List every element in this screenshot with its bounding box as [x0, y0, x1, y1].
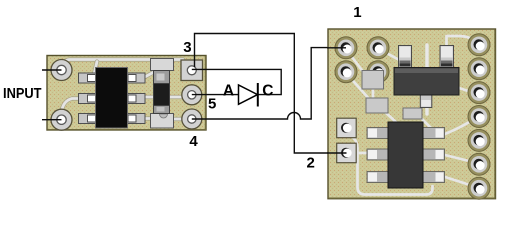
- right column pad 6: [468, 153, 490, 175]
- svg-text:4: 4: [189, 133, 198, 150]
- U1 pin 2 left pad: [79, 94, 97, 104]
- IC U1 pin pads right: [128, 73, 146, 124]
- svg-text:A: A: [223, 83, 234, 100]
- IC U2 body: [388, 122, 423, 188]
- U2 pin row 3 left pad: [367, 172, 389, 183]
- trace pad col2 to Q1 left pin: [379, 49, 403, 62]
- U2 pin row 2 left pad: [367, 149, 389, 160]
- right board right column pads (7): [468, 34, 490, 199]
- IC U2 pin pads left: [367, 128, 389, 183]
- right board round pad (346,71.7): [335, 61, 357, 83]
- trace U2 row3R to right pad: [445, 177, 470, 185]
- wire pad5 to diode anode: [192, 94, 239, 96]
- U1 pin 1 right pad: [128, 73, 146, 83]
- svg-text:C: C: [262, 83, 273, 100]
- capacitor C1 body: [154, 71, 170, 114]
- trace square pad B to U2 row2L: [356, 152, 371, 155]
- trace top right pad to Q1 right pin: [447, 36, 478, 50]
- smd pad S2: [366, 98, 388, 113]
- capacitor C1 bottom solder tab: [151, 114, 174, 129]
- trace rail to pin1L: [94, 62, 97, 75]
- trace pad2 to pin2L: [62, 99, 81, 114]
- Q1 pin pad right: [440, 46, 454, 68]
- capacitor C1 top solder tab: [151, 59, 174, 71]
- U2 pin row 1 left pad: [367, 128, 389, 139]
- smd pad S1: [362, 71, 384, 90]
- pad 5: [182, 85, 202, 105]
- trace top rail pad1 to C1 to pad3: [62, 60, 184, 70]
- trace pin2R to pad5: [140, 95, 188, 99]
- pad 4: [182, 109, 202, 129]
- U2 pin row 3 right pad: [423, 172, 445, 183]
- wire pad3 to diode cathode: [192, 69, 281, 94]
- U1 pin 3 left pad: [79, 114, 97, 124]
- right board square pad B (pin 2): [337, 143, 357, 163]
- IC U1 pin pads left: [79, 73, 97, 124]
- U1 pin 2 right pad: [128, 94, 146, 104]
- IC U1 body: [96, 68, 128, 129]
- right board square pad A: [337, 118, 357, 138]
- U1 pin 3 right pad: [128, 114, 146, 124]
- right column pad 1: [468, 34, 490, 56]
- transistor Q1 body: [394, 68, 459, 96]
- trace pin3R to C1 bottom: [141, 116, 154, 120]
- pad 3 (square): [181, 60, 203, 81]
- trace S2 to U2 top: [384, 111, 397, 123]
- U2 pin row 1 right pad: [423, 128, 445, 139]
- U2 pin row 2 right pad: [423, 149, 445, 160]
- Q1 pin pad left: [399, 46, 412, 68]
- trace C1 bottom to pad4: [170, 117, 188, 121]
- transistor Q1 pin pads: [399, 46, 454, 108]
- smd pad S3: [403, 108, 422, 119]
- svg-text:2: 2: [307, 154, 315, 171]
- U1 pin 1 left pad: [79, 73, 97, 83]
- right board round pad (378,47.8): [367, 37, 389, 59]
- trace pad1 to smd pad S1: [346, 49, 367, 77]
- trace U2 row1R to right pad: [445, 119, 474, 134]
- right column pad 7: [468, 177, 490, 199]
- trace Q1 right pin to right pad row3: [445, 66, 473, 93]
- wire pad3 up over and down to pad B of right board: [195, 34, 347, 154]
- pad INPUT+ (big pad 1): [51, 60, 72, 81]
- right board round pad pin 1: [335, 37, 357, 59]
- right column pad 5: [468, 129, 490, 151]
- svg-text:3: 3: [183, 39, 191, 56]
- right PCB board: [328, 29, 496, 199]
- right board round pad (378,71.7): [367, 61, 389, 83]
- IC U2 pin pads right: [423, 128, 445, 183]
- Q1 pin pad bottom: [420, 95, 432, 108]
- trace S3 to U2 right pin row1: [420, 117, 433, 130]
- wire INPUT to pad1: [42, 69, 62, 71]
- right column pad 4: [468, 106, 490, 128]
- diode D1: [239, 83, 258, 107]
- svg-text:1: 1: [353, 4, 361, 21]
- trace Q1 bottom pin to S3: [425, 45, 428, 114]
- svg-text:5: 5: [208, 95, 216, 112]
- trace pad (346,71.7) to smd pad S2: [346, 73, 371, 101]
- trace square pad A around bottom: [351, 136, 433, 195]
- left PCB board: [47, 56, 206, 131]
- right column pad 2: [468, 58, 490, 80]
- trace U2 row2R to right pad: [445, 155, 473, 162]
- trace S1 to S2: [372, 85, 375, 99]
- wire overlay into pad1 of right board: [327, 47, 346, 49]
- right column pad 3: [468, 82, 490, 104]
- svg-text:INPUT: INPUT: [3, 86, 42, 102]
- pad INPUT- (big pad 2): [51, 109, 72, 130]
- wire pad4 with hop to pad1 of right board: [192, 48, 346, 119]
- wire overlay into pad B of right board: [327, 152, 347, 154]
- trace pin1R to C1 top: [141, 72, 154, 79]
- wire INPUT to pad2: [42, 119, 62, 121]
